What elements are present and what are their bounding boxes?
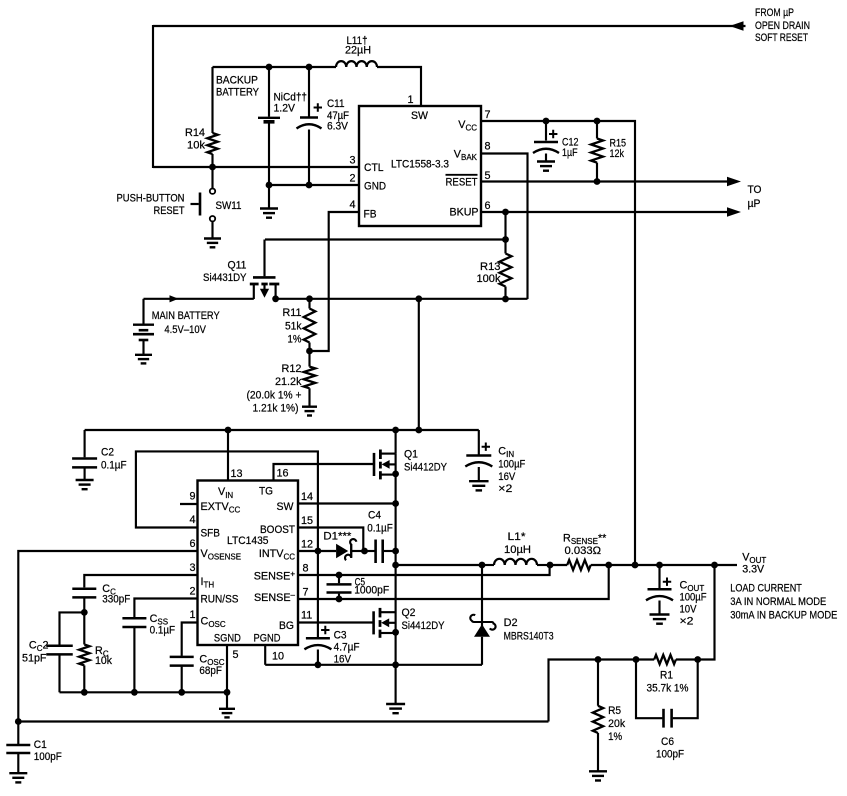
svg-text:SW: SW xyxy=(277,501,295,513)
svg-text:BOOST: BOOST xyxy=(260,524,295,536)
node INTVCC D1 anode junction xyxy=(315,548,322,555)
svg-text:×2: ×2 xyxy=(498,483,512,495)
svg-text:SFB: SFB xyxy=(201,528,221,540)
svg-text:1: 1 xyxy=(189,609,195,621)
label R14 10k xyxy=(185,127,206,152)
arrowhead TO uP bkup xyxy=(727,207,741,217)
label RSENSE 0.033ohm xyxy=(563,533,607,557)
battery NiCd backup cell xyxy=(258,67,280,186)
node SW node on Q vertical xyxy=(392,562,399,569)
node RSENSE VOUT junction xyxy=(605,562,612,569)
svg-text:SGND: SGND xyxy=(214,633,241,645)
wire backup battery top rail with corner to SW pin1 xyxy=(213,67,422,106)
svg-text:C6: C6 xyxy=(661,736,674,748)
node C12 top xyxy=(543,118,550,125)
capacitor C6 xyxy=(636,660,698,728)
node VIN rail Q1 drain xyxy=(392,427,399,434)
node R1 right vout xyxy=(711,562,718,569)
node SGND rail junction xyxy=(224,689,231,696)
label PUSH-BUTTON RESET xyxy=(117,193,185,217)
wire pin4 SFB route to INTVCC node xyxy=(136,451,318,551)
label Q2 Si4412DY xyxy=(402,607,445,632)
svg-text:BKUP: BKUP xyxy=(450,207,479,219)
svg-text:51k: 51k xyxy=(285,320,302,332)
svg-text:LTC1435: LTC1435 xyxy=(227,535,269,547)
svg-text:4.7µF: 4.7µF xyxy=(334,641,360,653)
label MAIN BATTERY 4.5V-10V xyxy=(152,310,220,336)
svg-text:1000pF: 1000pF xyxy=(354,584,389,596)
svg-text:0.1µF: 0.1µF xyxy=(101,459,127,471)
svg-text:3.3V: 3.3V xyxy=(742,563,765,575)
svg-text:C2: C2 xyxy=(101,446,114,458)
svg-text:SENSE–: SENSE– xyxy=(254,591,296,604)
svg-text:PGND: PGND xyxy=(254,633,281,645)
label Q1 Si4412DY xyxy=(404,449,447,474)
svg-text:2: 2 xyxy=(349,173,355,185)
svg-text:16: 16 xyxy=(277,468,289,480)
svg-text:100µF: 100µF xyxy=(498,459,525,471)
node Q2 source body tie xyxy=(392,629,399,636)
capacitor C5 xyxy=(327,575,352,599)
label C11 47uF 6.3V xyxy=(327,98,349,133)
pin RESET label with overline xyxy=(446,175,478,189)
svg-text:GND: GND xyxy=(364,180,386,192)
svg-text:1.2V: 1.2V xyxy=(274,103,296,115)
inductor L11 coil xyxy=(336,61,377,67)
wire INTVCC node down to C3 xyxy=(317,551,319,637)
svg-text:R11: R11 xyxy=(283,307,302,319)
svg-text:0.1µF: 0.1µF xyxy=(150,624,176,636)
svg-text:10: 10 xyxy=(272,650,284,662)
svg-text:SW11: SW11 xyxy=(216,200,242,212)
transistor Q1 Si4412DY xyxy=(374,430,396,565)
diode D2 MBRS140T3 schottky xyxy=(470,565,495,665)
node COSC bottom xyxy=(178,689,185,696)
node RC bottom xyxy=(81,689,88,696)
capacitor C12 xyxy=(533,121,559,161)
label R13 100k xyxy=(477,261,502,285)
capacitor C2 xyxy=(72,430,97,480)
svg-text:×2: ×2 xyxy=(680,616,694,628)
capacitor C4 xyxy=(365,540,396,564)
node R15 top xyxy=(594,118,601,125)
wire pin6 VOSENSE to feedback line xyxy=(18,551,197,722)
svg-text:6: 6 xyxy=(189,538,195,550)
wire R1 node up to VOUT xyxy=(698,565,715,660)
svg-text:SOFT RESET: SOFT RESET xyxy=(755,32,808,44)
svg-text:Q1: Q1 xyxy=(404,449,418,461)
svg-text:(20.0k 1% +: (20.0k 1% + xyxy=(247,390,302,402)
svg-text:100pF: 100pF xyxy=(656,749,684,761)
svg-text:1: 1 xyxy=(407,94,413,106)
label C5 1000pF xyxy=(354,576,389,596)
svg-text:Si4431DY: Si4431DY xyxy=(203,272,247,284)
svg-text:D1***: D1*** xyxy=(323,531,352,543)
node R11 top xyxy=(306,295,313,302)
label FROM uP OPEN DRAIN SOFT RESET xyxy=(755,7,810,44)
ground COUT xyxy=(650,613,670,615)
svg-text:RUN/SS: RUN/SS xyxy=(201,593,239,605)
label CSS 0.1uF xyxy=(150,613,176,637)
label CC2 51pF xyxy=(22,640,49,665)
wire left vertical rail to CTL xyxy=(152,25,154,168)
svg-text:3A IN NORMAL MODE: 3A IN NORMAL MODE xyxy=(730,596,826,608)
wire VOUT line xyxy=(609,564,737,566)
ground C2 xyxy=(76,479,94,481)
node Q2 source on rail xyxy=(392,661,399,668)
svg-text:1%: 1% xyxy=(608,731,622,743)
svg-text:LTC1558-3.3: LTC1558-3.3 xyxy=(391,159,449,171)
svg-text:7: 7 xyxy=(303,587,309,599)
ground power rail xyxy=(386,665,405,713)
node R11 R12 FB junction xyxy=(306,348,313,355)
wire SW switch node to L1 xyxy=(396,564,482,566)
svg-text:0.1µF: 0.1µF xyxy=(367,523,393,535)
svg-text:Si4412DY: Si4412DY xyxy=(402,620,445,632)
svg-text:9: 9 xyxy=(189,491,195,503)
svg-text:R5: R5 xyxy=(608,705,621,717)
resistor R13 xyxy=(500,240,512,300)
svg-text:1µF: 1µF xyxy=(562,147,578,159)
svg-text:µP: µP xyxy=(748,198,761,210)
svg-text:TO: TO xyxy=(748,184,762,196)
svg-text:51pF: 51pF xyxy=(22,653,47,665)
svg-text:C3: C3 xyxy=(334,629,347,641)
resistor R5 xyxy=(593,660,603,772)
svg-text:FB: FB xyxy=(364,209,377,221)
wire main battery line xyxy=(144,298,528,300)
label COUT 100uF 10V x2 xyxy=(680,579,707,627)
node C5 bottom xyxy=(336,596,343,603)
label VOUT 3.3V xyxy=(742,552,766,576)
node backup rail C11 junction xyxy=(306,64,313,71)
svg-text:4: 4 xyxy=(189,514,195,526)
wire R5 to C6 segment xyxy=(598,658,636,660)
ground R5 xyxy=(589,770,607,772)
node L1 RSENSE junction xyxy=(547,562,554,569)
svg-text:BG: BG xyxy=(279,620,294,632)
label CC 330pF xyxy=(102,583,130,606)
svg-text:4.5V–10V: 4.5V–10V xyxy=(164,324,206,336)
wire power ground rail xyxy=(265,664,482,666)
capacitor CIN xyxy=(465,430,492,481)
svg-text:FROM µP: FROM µP xyxy=(755,7,794,19)
node BKUP junction xyxy=(502,209,509,216)
svg-text:20k: 20k xyxy=(608,718,626,730)
ground SGND xyxy=(219,708,235,710)
svg-text:3: 3 xyxy=(349,155,355,167)
node CC RC CC2 junction xyxy=(81,609,88,616)
node gate line R13 junction xyxy=(502,236,509,243)
svg-text:Q2: Q2 xyxy=(402,607,416,619)
svg-text:8: 8 xyxy=(303,563,309,575)
inductor L1 coil xyxy=(482,559,550,565)
svg-text:SENSE+: SENSE+ xyxy=(254,569,296,582)
label C4 0.1uF xyxy=(367,510,393,535)
op-amp U1 LTC1558-3.3 regulator box xyxy=(359,106,481,226)
wire pin10 PGND down to power ground rail xyxy=(264,645,266,665)
resistor R11 xyxy=(304,299,316,351)
svg-text:8: 8 xyxy=(485,141,491,153)
wire pin3 ITH to CC xyxy=(84,575,197,587)
ground C12 xyxy=(537,160,555,162)
ground C1 xyxy=(9,772,27,774)
wire R1 R5 node line xyxy=(549,660,599,722)
diode D1 schottky xyxy=(318,539,365,560)
node SW pin14 junction xyxy=(392,500,399,507)
svg-text:R13: R13 xyxy=(480,261,501,273)
svg-text:TG: TG xyxy=(259,485,273,497)
label R15 12k xyxy=(610,137,627,160)
wire pin14 SW to Q1 source xyxy=(298,502,396,504)
svg-text:100µF: 100µF xyxy=(680,592,707,604)
ground CIN xyxy=(469,480,489,482)
svg-text:330pF: 330pF xyxy=(102,594,130,606)
label R12 21.2k xyxy=(247,363,303,414)
wire pin13 VIN xyxy=(227,430,229,481)
capacitor CSS xyxy=(122,618,146,692)
transistor Q2 Si4412DY xyxy=(374,565,396,638)
resistor RSENSE xyxy=(550,560,609,570)
node C4 right on Q vertical xyxy=(392,548,399,555)
svg-text:68pF: 68pF xyxy=(199,665,222,677)
svg-text:OPEN DRAIN: OPEN DRAIN xyxy=(755,20,810,32)
svg-text:13: 13 xyxy=(231,468,243,480)
svg-text:CTL: CTL xyxy=(364,162,384,174)
capacitor C1 xyxy=(6,722,30,774)
wire sense+ line xyxy=(298,565,550,575)
svg-text:5: 5 xyxy=(485,170,491,182)
wire soft reset line from microprocessor xyxy=(153,25,746,27)
node GND NiCd xyxy=(266,182,273,189)
wire battery line down to VIN rail xyxy=(418,299,420,430)
wire pin12 INTVCC xyxy=(298,550,318,552)
node VIN rail battery feed xyxy=(415,427,422,434)
wire CTL line xyxy=(153,166,359,168)
svg-text:4: 4 xyxy=(349,199,355,211)
op-amp U2 LTC1435 controller box xyxy=(198,481,299,646)
svg-text:12: 12 xyxy=(301,539,313,551)
arrowhead TO uP reset xyxy=(727,177,741,187)
svg-text:R1: R1 xyxy=(660,670,673,682)
node backup rail NiCd junction xyxy=(266,64,273,71)
svg-text:100pF: 100pF xyxy=(34,751,62,763)
arrowhead FROM uP (pointing left) xyxy=(730,21,744,31)
svg-text:14: 14 xyxy=(301,491,313,503)
wire CC2 branch xyxy=(60,612,85,645)
svg-text:MAIN BATTERY: MAIN BATTERY xyxy=(152,310,220,322)
label C2 0.1uF xyxy=(101,446,127,471)
wire feedback line to VOSENSE xyxy=(18,720,548,722)
battery MAIN BATTERY symbol xyxy=(133,299,154,355)
capacitor COSC xyxy=(170,657,194,692)
svg-text:SW: SW xyxy=(411,110,429,122)
node VCC feed junction xyxy=(632,562,639,569)
wire signal ground rail xyxy=(60,691,228,693)
svg-text:1%: 1% xyxy=(288,333,302,345)
wire sense- line xyxy=(298,565,609,599)
wire VCC pin7 to C12 R15 and down to VOUT xyxy=(481,121,635,565)
svg-text:L1*: L1* xyxy=(508,531,527,543)
label L1 10uH xyxy=(504,531,531,556)
ground main battery xyxy=(135,354,152,356)
wire VIN top rail xyxy=(85,429,479,431)
resistor R15 xyxy=(591,121,603,182)
svg-text:5: 5 xyxy=(233,649,239,661)
wire RESET pin5 to uP xyxy=(481,180,728,182)
label L11 22uH xyxy=(345,35,371,57)
capacitor CC xyxy=(72,589,96,613)
node Q11 drain xyxy=(272,295,279,302)
svg-text:10k: 10k xyxy=(187,140,206,152)
svg-text:BACKUP: BACKUP xyxy=(216,75,258,87)
capacitor CC2 xyxy=(46,646,73,693)
node GND C11 xyxy=(306,182,313,189)
node C5 top xyxy=(336,572,343,579)
node R15 bottom on RESET line xyxy=(594,178,601,185)
svg-text:R12: R12 xyxy=(282,363,302,375)
svg-text:BATTERY: BATTERY xyxy=(216,86,259,98)
resistor RC xyxy=(79,612,89,692)
wire pin5 SGND down xyxy=(226,645,228,709)
label R1 35.7k 1% xyxy=(647,670,689,695)
label C12 1uF xyxy=(562,137,579,160)
wire pin15 BOOST to D1 cathode C4 xyxy=(298,528,363,552)
svg-text:3: 3 xyxy=(189,562,195,574)
resistor R1 xyxy=(636,655,698,664)
svg-text:MBRS140T3: MBRS140T3 xyxy=(504,630,554,642)
label load current notes xyxy=(730,582,837,621)
resistor R14 xyxy=(207,67,217,168)
svg-text:11: 11 xyxy=(301,610,312,622)
svg-text:Q11: Q11 xyxy=(228,260,247,272)
wire pin16 TG to Q1 gate xyxy=(274,464,375,481)
svg-text:D2: D2 xyxy=(504,617,518,629)
svg-text:15: 15 xyxy=(301,515,313,527)
ground R12 xyxy=(302,406,317,408)
node C6 left R1 left xyxy=(633,656,640,663)
capacitor C3 xyxy=(304,626,331,665)
switch SW11 push-button xyxy=(191,167,216,221)
svg-text:1.21k 1%): 1.21k 1%) xyxy=(253,402,299,414)
label C3 4.7uF 16V xyxy=(334,629,360,665)
capacitor C11 xyxy=(297,67,323,186)
svg-text:C4: C4 xyxy=(368,510,381,522)
svg-text:R14: R14 xyxy=(185,127,205,139)
svg-text:10k: 10k xyxy=(95,655,113,667)
label CIN 100uF 16V x2 xyxy=(498,445,525,495)
wire BKUP down to gate line xyxy=(504,212,506,240)
wire Q11 gate line xyxy=(265,238,506,240)
node VIN rail pin13 xyxy=(225,427,232,434)
node VIN branch on battery line xyxy=(415,295,422,302)
svg-text:RESET: RESET xyxy=(154,205,185,217)
label R11 51k 1% xyxy=(283,307,303,345)
wire pin9 EXTVCC stub xyxy=(180,503,198,505)
transistor Q11 Si4431DY PMOS xyxy=(250,240,279,300)
node Q1 source body tie xyxy=(392,471,399,478)
svg-text:30mA IN BACKUP MODE: 30mA IN BACKUP MODE xyxy=(730,610,837,622)
label COSC 68pF xyxy=(199,654,224,677)
svg-text:16V: 16V xyxy=(334,653,352,665)
label NiCd 1.2V xyxy=(274,92,308,115)
node CSS bottom xyxy=(131,689,138,696)
label R5 20k 1% xyxy=(608,705,626,743)
node R1 C6 right xyxy=(694,656,701,663)
label C6 100pF xyxy=(656,736,684,761)
node C1 feedback junction xyxy=(15,718,22,725)
node COUT top xyxy=(656,562,663,569)
node D2 L1 junction xyxy=(479,562,486,569)
node C3 bottom xyxy=(315,661,322,668)
arrowhead main battery feed xyxy=(170,295,179,302)
node R5 top xyxy=(595,656,602,663)
capacitor COUT xyxy=(646,565,673,614)
svg-text:21.2k: 21.2k xyxy=(275,376,302,388)
svg-text:2: 2 xyxy=(189,586,195,598)
svg-text:16V: 16V xyxy=(498,471,516,483)
svg-text:6: 6 xyxy=(485,200,491,212)
svg-text:0.033Ω: 0.033Ω xyxy=(565,545,602,557)
svg-text:12k: 12k xyxy=(610,148,625,160)
wire pin1 COSC cap branch xyxy=(182,623,198,656)
label TO uP xyxy=(748,184,762,210)
svg-text:22µH: 22µH xyxy=(345,45,371,57)
svg-text:7: 7 xyxy=(485,109,491,121)
svg-text:Si4412DY: Si4412DY xyxy=(404,462,447,474)
node R13 bottom on battery line xyxy=(502,296,509,303)
node junction R14 SW11 on CTL line xyxy=(209,164,216,171)
node BOOST D1 C4 junction xyxy=(361,548,368,555)
wire pin11 BG to Q2 gate xyxy=(298,621,374,623)
wire GND line pin2 xyxy=(269,184,359,186)
svg-text:C1: C1 xyxy=(34,739,47,751)
svg-text:35.7k 1%: 35.7k 1% xyxy=(647,683,689,695)
ground SW11 xyxy=(204,221,221,247)
resistor R12 xyxy=(304,351,316,407)
wire FB pin4 route to R11 R12 divider xyxy=(310,212,360,351)
svg-text:10V: 10V xyxy=(680,604,698,616)
label RC 10k xyxy=(95,645,113,667)
wire Q2 source to pgnd rail xyxy=(395,632,397,665)
wire BKUP pin6 to uP xyxy=(481,211,728,213)
svg-text:LOAD CURRENT: LOAD CURRENT xyxy=(730,582,802,594)
svg-text:PUSH-BUTTON: PUSH-BUTTON xyxy=(117,193,185,205)
svg-text:10µH: 10µH xyxy=(504,544,531,556)
svg-text:RESET: RESET xyxy=(446,177,478,189)
svg-text:100k: 100k xyxy=(477,273,502,285)
ground backup battery rail xyxy=(260,185,278,218)
label Q11 Si4431DY xyxy=(203,260,247,284)
svg-text:6.3V: 6.3V xyxy=(327,121,349,133)
wire pin2 RUNSS to CSS xyxy=(134,599,197,618)
label C1 100pF xyxy=(34,739,62,763)
label D2 MBRS140T3 xyxy=(504,617,554,642)
wire V_BAK pin8 to main battery node xyxy=(481,154,528,300)
svg-text:C11: C11 xyxy=(327,98,345,110)
label BACKUP BATTERY xyxy=(216,75,259,99)
